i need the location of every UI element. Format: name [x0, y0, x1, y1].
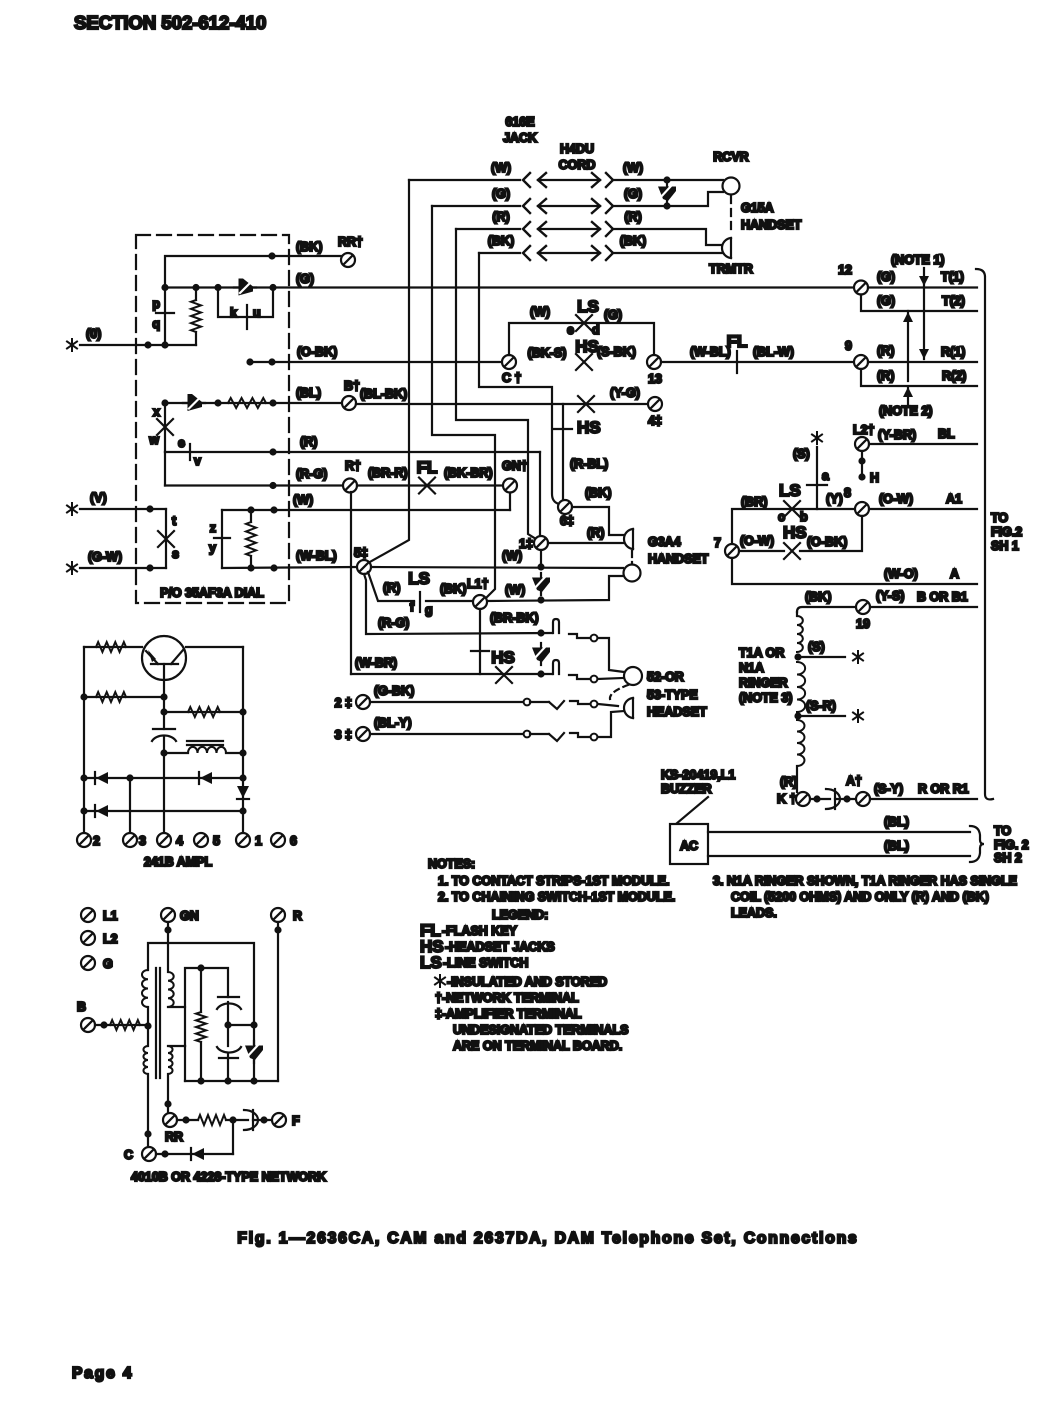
svg-text:TRMTR: TRMTR [709, 262, 753, 276]
wire W rail down to 5 [368, 180, 409, 563]
network terminal GN [161, 908, 175, 922]
svg-text:(W): (W) [491, 161, 511, 175]
svg-text:(Y-G): (Y-G) [610, 386, 640, 400]
terminal A-dagger [856, 792, 870, 806]
svg-text:(W-BL): (W-BL) [690, 345, 731, 359]
terminal 9 [854, 355, 868, 369]
svg-text:(R-G): (R-G) [378, 616, 409, 630]
varistor k-u on G [234, 279, 256, 296]
terminal 12 [854, 281, 868, 295]
plug BL-Y [570, 733, 590, 737]
terminal B [81, 1018, 95, 1032]
svg-text:(R): (R) [780, 775, 797, 789]
svg-text:KS-20419,L1: KS-20419,L1 [661, 768, 735, 782]
network bottom wire [185, 1080, 278, 1082]
svg-text:F: F [292, 1114, 300, 1128]
transistor Q 241B [142, 636, 186, 680]
svg-text:HS: HS [491, 648, 515, 667]
svg-text:(NOTE 3): (NOTE 3) [739, 691, 792, 705]
wire (O) input [80, 344, 196, 346]
terminal C network [142, 1147, 156, 1161]
svg-text:C †: C † [502, 371, 522, 385]
svg-text:(NOTE 2): (NOTE 2) [879, 404, 932, 418]
wire (R) dial row [165, 451, 540, 453]
contact k u bar [246, 305, 248, 329]
inductor amp with core [187, 740, 223, 742]
svg-text:N1A: N1A [739, 661, 764, 675]
svg-text:FL: FL [417, 458, 438, 477]
wire R rail down to 1 [456, 229, 536, 539]
junction dots O [144, 341, 151, 348]
junction dots G row [161, 284, 168, 291]
terminal 7 [725, 544, 739, 558]
contact z y block [221, 510, 223, 568]
svg-text:9: 9 [845, 339, 852, 353]
dashed link G3A4 [631, 551, 633, 563]
svg-text:x: x [153, 405, 160, 419]
dots H below L2 [861, 451, 863, 477]
wire Y-S B OR B1 [870, 606, 977, 608]
svg-text:b: b [800, 510, 808, 524]
amp terminal 2 [77, 833, 91, 847]
svg-text:(BL-W): (BL-W) [753, 345, 794, 359]
svg-text:(S-R): (S-R) [806, 699, 836, 713]
svg-text:RR†: RR† [338, 235, 363, 249]
transmitter 52-type [624, 698, 633, 718]
varistor across RCVR [658, 182, 676, 204]
wire (BK) to TRMTR [614, 252, 722, 254]
ringer tap S-R [794, 712, 801, 719]
svg-text:AC: AC [680, 839, 698, 853]
svg-text:5: 5 [213, 834, 220, 848]
svg-text:e: e [567, 323, 574, 337]
flash key FL X [419, 478, 435, 494]
svg-text:3 ‡: 3 ‡ [335, 728, 352, 742]
wire S with contact a [816, 447, 818, 509]
winding connect right [168, 1006, 185, 1008]
svg-text:(BL-BK): (BL-BK) [360, 387, 407, 401]
svg-text:(Y): (Y) [826, 492, 843, 506]
svg-text:(S-BK): (S-BK) [597, 345, 636, 359]
svg-text:(R): (R) [383, 581, 400, 595]
svg-text:(W): (W) [530, 305, 550, 319]
wire K to cap [813, 795, 820, 802]
wire 5 down to R-G row [364, 574, 552, 634]
svg-text:T1A OR: T1A OR [739, 646, 784, 660]
svg-text:(BL-Y): (BL-Y) [374, 716, 412, 730]
svg-text:(BR): (BR) [741, 495, 767, 509]
svg-text:L2: L2 [103, 932, 118, 946]
brace TO FIG 2 SH 2 [970, 826, 984, 862]
mid node wire [228, 1024, 254, 1026]
svg-text:-INSULATED AND STORED: -INSULATED AND STORED [447, 975, 607, 989]
capacitor ringer [826, 789, 840, 809]
svg-text:BUZZER: BUZZER [661, 782, 712, 796]
svg-text:1. TO CONTACT STRIPS-1ST MODUL: 1. TO CONTACT STRIPS-1ST MODULE. [438, 874, 670, 888]
network terminal L2 [81, 931, 95, 945]
transmitter TRMTR G3A4 [624, 529, 633, 549]
svg-text:C: C [124, 1148, 133, 1162]
cord conductor (G) y=206 [432, 187, 642, 213]
svg-text:z: z [210, 521, 216, 535]
svg-text:HEADSET: HEADSET [647, 705, 707, 719]
wire G-BK row [370, 701, 523, 703]
bracket k u [218, 288, 273, 318]
wire 7 down W-O A [732, 558, 977, 584]
svg-text:(G-W): (G-W) [88, 550, 122, 564]
svg-text:(R): (R) [624, 210, 641, 224]
svg-text:(BL): (BL) [296, 386, 321, 400]
svg-text:c: c [778, 510, 785, 524]
svg-text:A†: A† [846, 774, 862, 788]
svg-text:(0): (0) [86, 327, 101, 341]
svg-text:s: s [172, 547, 179, 561]
amplifier right rail [242, 647, 244, 833]
RR resistor to F [177, 1119, 198, 1121]
wire (W) dial row to GN [222, 509, 510, 511]
svg-text:LEGEND:: LEGEND: [492, 908, 548, 922]
svg-text:P/O 35AF3A DIAL: P/O 35AF3A DIAL [160, 586, 264, 600]
svg-text:(W): (W) [293, 493, 313, 507]
svg-text:6: 6 [290, 834, 297, 848]
network terminal L1 [81, 908, 95, 922]
svg-text:(R): (R) [877, 344, 894, 358]
svg-text:LS: LS [779, 481, 801, 500]
svg-text:FIG.2: FIG.2 [991, 525, 1022, 539]
wire bottom left leg [184, 1046, 186, 1081]
switch X Y-G [578, 396, 594, 412]
svg-text:RINGER: RINGER [739, 676, 788, 690]
wire BR loop [732, 509, 855, 544]
svg-text:Page 4: Page 4 [72, 1365, 133, 1382]
terminal 5 [357, 560, 371, 574]
svg-text:(Y-S): (Y-S) [876, 589, 904, 603]
diode row 2 [84, 810, 243, 812]
contact x w on vertical [164, 403, 166, 452]
svg-text:HS: HS [783, 523, 807, 542]
bracket TO FIG2 SH1 [976, 269, 993, 799]
transformer left winding lower [147, 1007, 149, 1046]
dashed handset link G15A [730, 196, 732, 235]
svg-text:p: p [152, 297, 160, 311]
svg-text:(W-O): (W-O) [884, 567, 918, 581]
amp terminal 1 [236, 833, 250, 847]
cord conductor (W) y=180 [409, 161, 643, 187]
resistor network [196, 1012, 206, 1042]
terminal RR-dagger [341, 253, 355, 267]
svg-text:(O-BK): (O-BK) [807, 535, 847, 549]
wire BL upper [708, 831, 970, 833]
svg-text:13: 13 [648, 372, 662, 386]
svg-text:(BK-BR): (BK-BR) [444, 466, 493, 480]
wire (Y-G) continue to 4 [356, 403, 648, 405]
svg-text:(O-BK): (O-BK) [297, 345, 337, 359]
wire BK rail down to 6 [479, 253, 559, 504]
svg-text:(BR-R): (BR-R) [368, 466, 408, 480]
dashed box P/O 35AF3A DIAL [136, 235, 289, 603]
wire BL-Y row [370, 733, 523, 735]
flash key FL contact [736, 351, 738, 373]
svg-text:12: 12 [838, 263, 852, 277]
svg-text:(W): (W) [502, 549, 522, 563]
svg-text:UNDESIGNATED TERMINALS: UNDESIGNATED TERMINALS [453, 1023, 628, 1037]
terminal 19 [856, 600, 870, 614]
amplifier top wire [84, 646, 142, 648]
jack contact W-BR [553, 660, 559, 674]
wire 5 to LS f g row [368, 572, 414, 601]
terminal 8 [855, 502, 869, 516]
svg-text:(BK-S): (BK-S) [528, 346, 567, 360]
GN lead [167, 922, 169, 972]
L1 rail down BR-BK [479, 609, 481, 674]
svg-text:TO: TO [994, 824, 1011, 838]
diode row 1 [84, 777, 243, 779]
asterisk S [812, 432, 822, 444]
svg-text:(S): (S) [793, 447, 810, 461]
svg-text:HS: HS [575, 337, 599, 356]
asterisk (V) input [67, 503, 77, 515]
receiver 52-type [624, 667, 642, 685]
wire (BL) dial row to B terminal [165, 402, 342, 404]
switch X W-BR [496, 667, 512, 683]
transformer core [155, 968, 157, 1078]
svg-text:y: y [209, 541, 216, 555]
svg-text:FL: FL [727, 332, 748, 351]
svg-text:(BR-BK): (BR-BK) [490, 611, 539, 625]
svg-text:(G): (G) [877, 294, 895, 308]
svg-text:5‡: 5‡ [354, 546, 368, 560]
dashed link 52-type [610, 685, 628, 699]
terminal 2 [356, 695, 370, 709]
svg-text:LEADS.: LEADS. [731, 906, 777, 920]
network top wire [148, 943, 254, 1025]
svg-text:(BL): (BL) [884, 839, 909, 853]
ringer tap S [794, 653, 801, 660]
amp terminal 5 [194, 833, 208, 847]
transmitter TRMTR G15A [722, 238, 731, 258]
svg-text:BL: BL [938, 427, 955, 441]
svg-text:w: w [148, 433, 159, 447]
junction dots W-BL [247, 564, 254, 571]
amp terminal 3 [123, 833, 137, 847]
ringer coil T1A N1A [796, 612, 798, 616]
R lead down [277, 922, 279, 1081]
junction dot G [663, 202, 670, 209]
svg-text:R: R [293, 909, 302, 923]
terminal GN-dagger [503, 479, 517, 493]
svg-text:(BK): (BK) [296, 240, 322, 254]
svg-text:R(1): R(1) [941, 345, 965, 359]
arrow note1 down [919, 268, 929, 359]
junction dots O-BK [246, 358, 253, 365]
svg-text:(G): (G) [624, 187, 642, 201]
svg-text:4: 4 [176, 834, 183, 848]
svg-text:e: e [178, 436, 185, 450]
svg-text:H: H [870, 471, 879, 485]
svg-text:A: A [950, 567, 959, 581]
receiver RCVR circle G15A [723, 178, 740, 195]
wire (W-BL) dial row to 5 [222, 567, 357, 568]
wire (BK) dial to RR terminal [165, 256, 341, 287]
svg-text:T(1): T(1) [941, 270, 964, 284]
svg-text:3. N1A RINGER SHOWN, T1A RINGE: 3. N1A RINGER SHOWN, T1A RINGER HAS SING… [713, 874, 1017, 888]
receiver RCVR G3A4 [624, 565, 641, 582]
junction dot R-G [269, 482, 276, 489]
svg-text:4010B OR 4228-TYPE NETWORK: 4010B OR 4228-TYPE NETWORK [131, 1170, 326, 1184]
transformer right winding upper [168, 972, 174, 1007]
svg-text:u: u [253, 306, 261, 320]
svg-text:-HEADSET JACKS: -HEADSET JACKS [445, 940, 555, 954]
svg-text:(R-BL): (R-BL) [570, 457, 608, 471]
resistor amp-1 [96, 642, 126, 652]
svg-text:2: 2 [93, 834, 100, 848]
break V G-BK [530, 701, 564, 709]
buzzer pointer line [676, 797, 708, 824]
svg-text:(G): (G) [877, 270, 895, 284]
svg-text:TO: TO [991, 511, 1008, 525]
capacitor network 2 [227, 1025, 229, 1046]
terminal 1 [534, 536, 548, 550]
wire S-Y R OR R1 [870, 798, 977, 800]
svg-text:(W-BR): (W-BR) [355, 656, 397, 670]
wire V input [80, 508, 166, 510]
terminal B-dagger [342, 396, 356, 410]
svg-text:GN: GN [180, 909, 199, 923]
svg-text:(R): (R) [300, 435, 317, 449]
wire G rail down to L1 [432, 206, 495, 598]
wire GN down to W row [509, 493, 511, 511]
terminal L1-dagger [473, 595, 487, 609]
ringer coil lower [797, 720, 804, 766]
break V BL-Y [530, 733, 564, 741]
svg-text:(G): (G) [604, 308, 622, 322]
svg-text:Fig. 1—2636CA, CAM and 2637DA,: Fig. 1—2636CA, CAM and 2637DA, DAM Telep… [237, 1230, 858, 1247]
inner node wire [185, 968, 228, 1046]
wire (R) to TRMTR [614, 229, 722, 245]
svg-text:(O-W): (O-W) [740, 534, 774, 548]
wire (G) dial row [165, 286, 854, 288]
svg-text:(O-W): (O-W) [879, 492, 913, 506]
svg-text:19: 19 [856, 617, 870, 631]
svg-text:B†: B† [344, 379, 360, 393]
plug G-BK [570, 701, 590, 704]
svg-text:(S): (S) [808, 640, 825, 654]
switch LS X c b [784, 501, 800, 517]
terminal 4 [648, 397, 662, 411]
svg-text:T(2): T(2) [942, 294, 965, 308]
varistor on BL [183, 394, 205, 411]
junction dot R [269, 448, 276, 455]
svg-text:CORD: CORD [559, 158, 596, 172]
terminal K-dagger [796, 792, 810, 806]
svg-text:241B AMPL: 241B AMPL [144, 855, 213, 869]
cord conductor (BK) y=253 [479, 234, 646, 260]
wire 1 down to W row [540, 550, 542, 567]
wire to terminal 3 amp [129, 778, 131, 833]
contact p q on vertical [164, 288, 166, 346]
plug W-BR [569, 675, 590, 679]
svg-text:(S-Y): (S-Y) [874, 782, 903, 796]
svg-text:SH 1: SH 1 [991, 539, 1019, 553]
svg-text:(BK): (BK) [585, 486, 611, 500]
svg-text:t: t [172, 514, 177, 528]
wire G-W input [80, 567, 166, 569]
arrow note2 up [903, 311, 913, 381]
svg-text:HS: HS [577, 418, 601, 437]
junction dots BL [161, 399, 168, 406]
wire T1 [868, 286, 977, 288]
svg-text:k: k [230, 306, 237, 320]
junction dots W row [247, 506, 254, 513]
wire BL lower [708, 855, 970, 857]
wire Y-BR BL [869, 443, 977, 445]
svg-text:JACK: JACK [503, 131, 537, 145]
terminal RR network [163, 1113, 177, 1127]
svg-text:(BK): (BK) [440, 582, 466, 596]
svg-text:-LINE SWITCH: -LINE SWITCH [443, 956, 528, 970]
asterisk (G-W) input [67, 562, 77, 574]
svg-text:FIG. 2: FIG. 2 [994, 838, 1029, 852]
svg-text:K †: K † [777, 792, 797, 806]
base row resistor [84, 696, 163, 698]
junction dot BK [268, 252, 275, 259]
svg-text:(R): (R) [492, 210, 509, 224]
terminal 13 [647, 355, 661, 369]
winding to RR [167, 1074, 169, 1113]
svg-text:(R): (R) [587, 526, 604, 540]
svg-text:G: G [103, 957, 113, 971]
svg-text:(G-BK): (G-BK) [374, 684, 414, 698]
switch LS X e d [576, 315, 592, 331]
svg-text:(BL): (BL) [884, 815, 909, 829]
svg-text:(Y-BR): (Y-BR) [878, 428, 916, 442]
capacitor amp [153, 728, 175, 730]
svg-text:‡-AMPLIFIER TERMINAL: ‡-AMPLIFIER TERMINAL [435, 1007, 582, 1021]
svg-text:ARE ON TERMINAL BOARD.: ARE ON TERMINAL BOARD. [453, 1039, 622, 1053]
B resistor [95, 1024, 148, 1026]
transformer left winding upper [142, 970, 148, 1007]
wire (O-BK) dial to C terminal [250, 361, 502, 363]
svg-text:(W): (W) [623, 161, 643, 175]
ringer coil mid [797, 662, 805, 712]
amp terminal 4 [157, 833, 171, 847]
terminal L2-dagger [855, 437, 869, 451]
svg-text:(BK): (BK) [488, 234, 514, 248]
svg-text:a: a [822, 469, 830, 483]
svg-text:616E: 616E [505, 115, 534, 129]
wire 8 down to HS row [800, 516, 862, 551]
wire BR-R / BK-BR to GN [357, 484, 503, 486]
collector row resistor [163, 697, 165, 729]
svg-text:NOTES:: NOTES: [428, 857, 475, 871]
svg-text:(G): (G) [492, 187, 510, 201]
contact t s [165, 509, 167, 568]
svg-text:(R-G): (R-G) [296, 467, 327, 481]
varistor network [253, 1025, 255, 1044]
switch HS X on 7 row [784, 543, 800, 559]
svg-text:HANDSET: HANDSET [648, 552, 709, 566]
amplifier top wire right [186, 646, 243, 648]
wire O-W A1 [869, 508, 977, 510]
svg-text:G3A4: G3A4 [648, 535, 681, 549]
svg-text:G15A: G15A [741, 201, 774, 215]
loop C to 13 with LS [509, 323, 654, 355]
wire BK to 19 [797, 607, 856, 612]
svg-text:COIL (5200 OHMS) AND ONLY (R): COIL (5200 OHMS) AND ONLY (R) AND (BK) [731, 890, 989, 904]
transformer right winding lower [168, 1045, 185, 1047]
svg-text:†-NETWORK TERMINAL: †-NETWORK TERMINAL [435, 991, 579, 1005]
svg-text:q: q [152, 317, 160, 331]
